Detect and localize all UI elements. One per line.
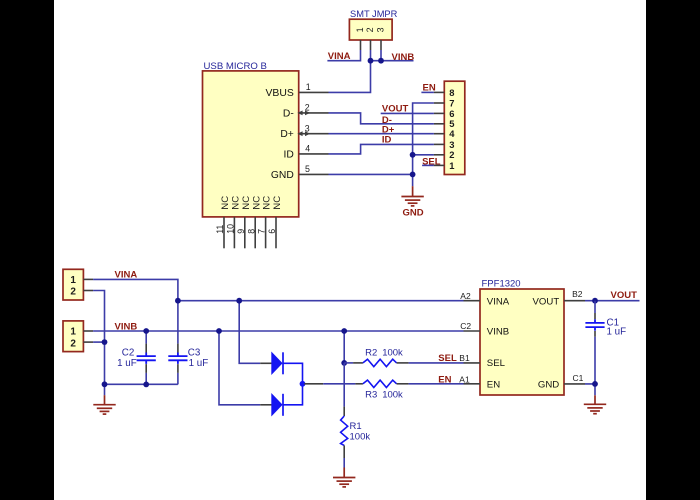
C1 top pin bbox=[594, 313, 596, 319]
usb pin 2 D- stub bbox=[299, 112, 329, 114]
junction jumper pin2/VINB bbox=[368, 58, 374, 64]
wire SEL to FPF1320 bbox=[409, 362, 464, 364]
C3 top pin bbox=[177, 344, 179, 353]
svg-text:D-: D- bbox=[283, 108, 294, 119]
svg-text:USB MICRO B: USB MICRO B bbox=[204, 61, 267, 72]
connector J1 1x2 VINA body bbox=[63, 269, 83, 300]
svg-text:4: 4 bbox=[449, 128, 455, 139]
svg-text:3: 3 bbox=[376, 27, 386, 32]
svg-text:1 uF: 1 uF bbox=[189, 358, 209, 369]
svg-text:1: 1 bbox=[449, 160, 454, 171]
fpf pin A1 stub bbox=[464, 383, 481, 385]
R3 right pin bbox=[397, 383, 409, 385]
svg-text:5: 5 bbox=[305, 164, 310, 174]
svg-text:2: 2 bbox=[365, 27, 375, 32]
C2 bottom pin bbox=[145, 364, 147, 373]
header pin 8 stub bbox=[434, 91, 444, 93]
svg-text:NC: NC bbox=[241, 196, 252, 210]
svg-text:VOUT: VOUT bbox=[382, 103, 409, 114]
svg-text:1: 1 bbox=[306, 82, 311, 92]
wire D- net bbox=[329, 113, 434, 124]
wire R1 to ground bbox=[343, 458, 345, 468]
svg-text:100k: 100k bbox=[382, 348, 403, 359]
junction VINB/R trunk bbox=[341, 328, 347, 334]
fpf pin C1 stub bbox=[564, 383, 585, 385]
svg-text:VBUS: VBUS bbox=[266, 88, 294, 99]
svg-text:FPF1320: FPF1320 bbox=[482, 279, 521, 290]
resistor R1 bbox=[341, 416, 348, 445]
svg-text:NC: NC bbox=[220, 196, 231, 210]
R1 top pin bbox=[343, 407, 345, 416]
connector USB MICRO B body bbox=[203, 71, 299, 217]
usb NC pin 10 stub bbox=[233, 217, 235, 248]
fpf pin B2 stub bbox=[564, 300, 585, 302]
junction VOUT/C1 bbox=[592, 298, 598, 304]
svg-text:100k: 100k bbox=[350, 431, 371, 442]
svg-text:R2: R2 bbox=[365, 348, 377, 359]
svg-text:4: 4 bbox=[305, 144, 310, 154]
svg-text:VOUT: VOUT bbox=[611, 290, 638, 301]
svg-text:VINA: VINA bbox=[328, 51, 351, 62]
svg-text:R1: R1 bbox=[350, 421, 362, 432]
J1 pin 2 stub bbox=[83, 290, 93, 292]
wire VINA row to FPF1320 bbox=[178, 300, 464, 302]
svg-text:C1: C1 bbox=[573, 373, 584, 383]
junction trunk/pin2 bbox=[410, 152, 416, 158]
R2 right pin bbox=[397, 362, 409, 364]
ground symbol bottom left bbox=[93, 395, 115, 414]
wire lower diode cathode bbox=[283, 384, 303, 405]
svg-text:NC: NC bbox=[251, 196, 262, 210]
header pin 5 stub bbox=[434, 123, 444, 125]
junction VINB/lower diode bbox=[216, 328, 222, 334]
svg-text:ID: ID bbox=[283, 149, 293, 160]
header pin 3 stub bbox=[434, 143, 444, 145]
header pin 6 stub bbox=[434, 112, 444, 114]
wire C1 bottom lead bbox=[594, 337, 596, 384]
svg-text:VINB: VINB bbox=[115, 322, 138, 333]
usb pin 3 bidirectional arrows bbox=[297, 131, 310, 136]
lower diode anode pin bbox=[260, 404, 271, 406]
wire EN stub at header pin 8 bbox=[421, 91, 434, 93]
connector J2 1x2 VINB body bbox=[63, 321, 83, 352]
J2 pin 1 stub bbox=[83, 330, 93, 332]
capacitor C1 bbox=[585, 319, 604, 330]
wire lower diode anode from VINB bbox=[219, 331, 260, 405]
header pin 2 stub bbox=[434, 154, 444, 156]
svg-text:2: 2 bbox=[305, 103, 310, 113]
junction GND/C1 bbox=[592, 381, 598, 387]
svg-text:VINA: VINA bbox=[487, 296, 510, 307]
wire VOUT stub at header pin 6 bbox=[381, 112, 434, 114]
svg-text:11: 11 bbox=[215, 225, 225, 234]
junction VINA/upper diode bbox=[236, 298, 242, 304]
ground symbol below header bbox=[401, 186, 423, 206]
wire VINA from J1 pin 1 bbox=[93, 279, 178, 300]
svg-text:D+: D+ bbox=[280, 129, 293, 140]
junction jumper pin3/VINB bbox=[378, 58, 384, 64]
svg-text:ID: ID bbox=[382, 134, 392, 145]
svg-text:7: 7 bbox=[449, 97, 454, 108]
wire R1 top bbox=[343, 363, 345, 407]
wire J2 pin 2 to ground trunk bbox=[93, 341, 104, 343]
svg-text:GND: GND bbox=[538, 379, 559, 390]
diode D1 (VINA) bbox=[272, 352, 283, 374]
capacitor C2 bbox=[137, 353, 156, 364]
svg-text:EN: EN bbox=[438, 375, 451, 386]
svg-text:7: 7 bbox=[257, 229, 267, 234]
fpf pin C2 stub bbox=[464, 330, 481, 332]
wire C2 bottom lead bbox=[145, 373, 147, 385]
connector JP1 SMT JMPR body bbox=[349, 19, 392, 40]
wire SEL stub at header pin 1 bbox=[422, 164, 434, 166]
svg-text:SEL: SEL bbox=[487, 358, 506, 369]
svg-text:9: 9 bbox=[236, 229, 246, 234]
svg-text:VINB: VINB bbox=[392, 52, 415, 63]
svg-text:B2: B2 bbox=[572, 289, 583, 299]
wire upper diode anode from VINA bbox=[239, 301, 260, 364]
svg-text:GND: GND bbox=[403, 208, 424, 219]
junction rail/left trunk bbox=[102, 381, 108, 387]
IC U1 FPF1320 body bbox=[480, 289, 564, 395]
wire C3 top lead from VINA bbox=[177, 301, 179, 344]
svg-text:C2: C2 bbox=[460, 321, 471, 331]
jumper pin 3 stub bbox=[380, 40, 382, 50]
R2 left pin bbox=[353, 362, 363, 364]
wire EN row bbox=[323, 383, 355, 385]
usb NC pin 11 stub bbox=[223, 217, 225, 248]
wire EN to FPF1320 bbox=[409, 383, 464, 385]
junction diode cathodes bbox=[300, 381, 306, 387]
svg-text:2: 2 bbox=[70, 287, 76, 298]
connector 8-pin header body bbox=[444, 81, 465, 174]
C1 bottom pin bbox=[594, 331, 596, 337]
wire VOUT net bbox=[585, 300, 640, 302]
wire C3 bottom lead bbox=[177, 373, 179, 385]
wire header pin 7 to gnd trunk bbox=[413, 103, 434, 186]
ground symbol below R1 bbox=[333, 468, 355, 487]
jumper pin 1 stub bbox=[360, 40, 362, 50]
svg-text:EN: EN bbox=[423, 83, 436, 94]
wire fpf GND to ground bbox=[585, 384, 595, 395]
wire jumper pin 2 down to VBUS bbox=[329, 50, 371, 92]
J2 pin 2 stub bbox=[83, 341, 93, 343]
wire ground rail bbox=[105, 383, 178, 385]
svg-text:2: 2 bbox=[70, 338, 76, 349]
svg-text:NC: NC bbox=[272, 196, 283, 210]
header pin 7 stub bbox=[434, 102, 444, 104]
wire VINB row to FPF1320 bbox=[93, 330, 463, 332]
fpf pin B1 stub bbox=[464, 362, 481, 364]
svg-text:R3: R3 bbox=[365, 390, 377, 401]
svg-text:1: 1 bbox=[70, 327, 76, 338]
C3 bottom pin bbox=[177, 364, 179, 373]
wire R1/R2 trunk from VINB bbox=[343, 331, 345, 363]
wire trunk to header pin 2 bbox=[413, 154, 434, 156]
wire upper diode cathode bbox=[283, 363, 303, 384]
svg-text:8: 8 bbox=[246, 229, 256, 234]
usb pin 2 bidirectional arrows bbox=[297, 111, 310, 116]
svg-text:VINA: VINA bbox=[115, 269, 138, 280]
junction trunk/usb gnd bbox=[410, 172, 416, 178]
svg-text:A2: A2 bbox=[460, 291, 471, 301]
junction C2/rail bbox=[143, 382, 149, 388]
usb NC pin 7 stub bbox=[265, 217, 267, 248]
svg-text:SEL: SEL bbox=[438, 353, 457, 364]
C2 top pin bbox=[145, 344, 147, 353]
usb NC pin 9 stub bbox=[244, 217, 246, 248]
usb pin 3 D+ stub bbox=[299, 133, 329, 135]
svg-text:5: 5 bbox=[449, 118, 454, 129]
wire D+ net bbox=[329, 133, 434, 135]
svg-text:1 uF: 1 uF bbox=[117, 358, 137, 369]
svg-text:3: 3 bbox=[305, 123, 310, 133]
R3 left pin bbox=[355, 383, 363, 385]
usb pin 4 ID stub bbox=[299, 153, 329, 155]
junction R2/R1 trunk bbox=[341, 360, 347, 366]
usb NC pin 8 stub bbox=[254, 217, 256, 248]
svg-text:VINB: VINB bbox=[487, 327, 509, 338]
svg-text:EN: EN bbox=[487, 379, 500, 390]
svg-text:SMT JMPR: SMT JMPR bbox=[350, 9, 398, 19]
svg-text:1: 1 bbox=[70, 275, 76, 286]
svg-text:VOUT: VOUT bbox=[533, 296, 560, 307]
diode D2 (VINB) bbox=[272, 394, 283, 416]
svg-text:NC: NC bbox=[231, 196, 242, 210]
svg-text:8: 8 bbox=[449, 87, 454, 98]
svg-text:100k: 100k bbox=[382, 390, 403, 401]
svg-text:B1: B1 bbox=[459, 353, 470, 363]
svg-text:2: 2 bbox=[449, 149, 454, 160]
wire jumper pin 3 stub down bbox=[380, 50, 382, 61]
svg-text:GND: GND bbox=[271, 170, 294, 181]
svg-text:3: 3 bbox=[449, 139, 454, 150]
resistor R3 bbox=[363, 380, 397, 387]
usb pin 1 VBUS stub bbox=[299, 91, 329, 93]
svg-text:6: 6 bbox=[449, 108, 454, 119]
junction J2 pin2/trunk bbox=[102, 339, 108, 345]
junction VINA/C3 branch bbox=[175, 298, 181, 304]
usb NC pin 6 stub bbox=[275, 217, 277, 248]
wire VINA to jumper pin 1 bbox=[327, 50, 360, 61]
junction C2/VINB bbox=[143, 328, 149, 334]
wire ID net bbox=[329, 144, 434, 154]
ground symbol below C1 bbox=[584, 395, 606, 413]
wire GND from usb pin 5 bbox=[329, 173, 413, 175]
wire VINB jumper net bbox=[371, 60, 414, 62]
header pin 4 stub bbox=[434, 133, 444, 135]
svg-text:6: 6 bbox=[267, 229, 277, 234]
EN row lead from diode dot bbox=[304, 383, 323, 385]
svg-text:1: 1 bbox=[355, 27, 365, 32]
upper diode anode pin bbox=[260, 362, 271, 364]
svg-text:1 uF: 1 uF bbox=[607, 326, 627, 337]
R1 bottom pin bbox=[343, 445, 345, 458]
wire C2 top lead bbox=[145, 331, 147, 344]
svg-text:NC: NC bbox=[262, 196, 273, 210]
wire C1 top lead bbox=[594, 301, 596, 313]
header pin 1 stub bbox=[434, 164, 444, 166]
resistor R2 bbox=[363, 359, 397, 366]
svg-text:10: 10 bbox=[226, 224, 236, 234]
wire J1 pin 2 down to ground bbox=[93, 291, 104, 396]
usb pin 5 GND stub bbox=[299, 173, 329, 175]
jumper pin 2 stub bbox=[370, 40, 372, 50]
wire R2 left bbox=[344, 362, 353, 364]
J1 pin 1 stub bbox=[83, 278, 93, 280]
capacitor C3 bbox=[168, 353, 187, 364]
fpf pin A2 stub bbox=[464, 300, 481, 302]
